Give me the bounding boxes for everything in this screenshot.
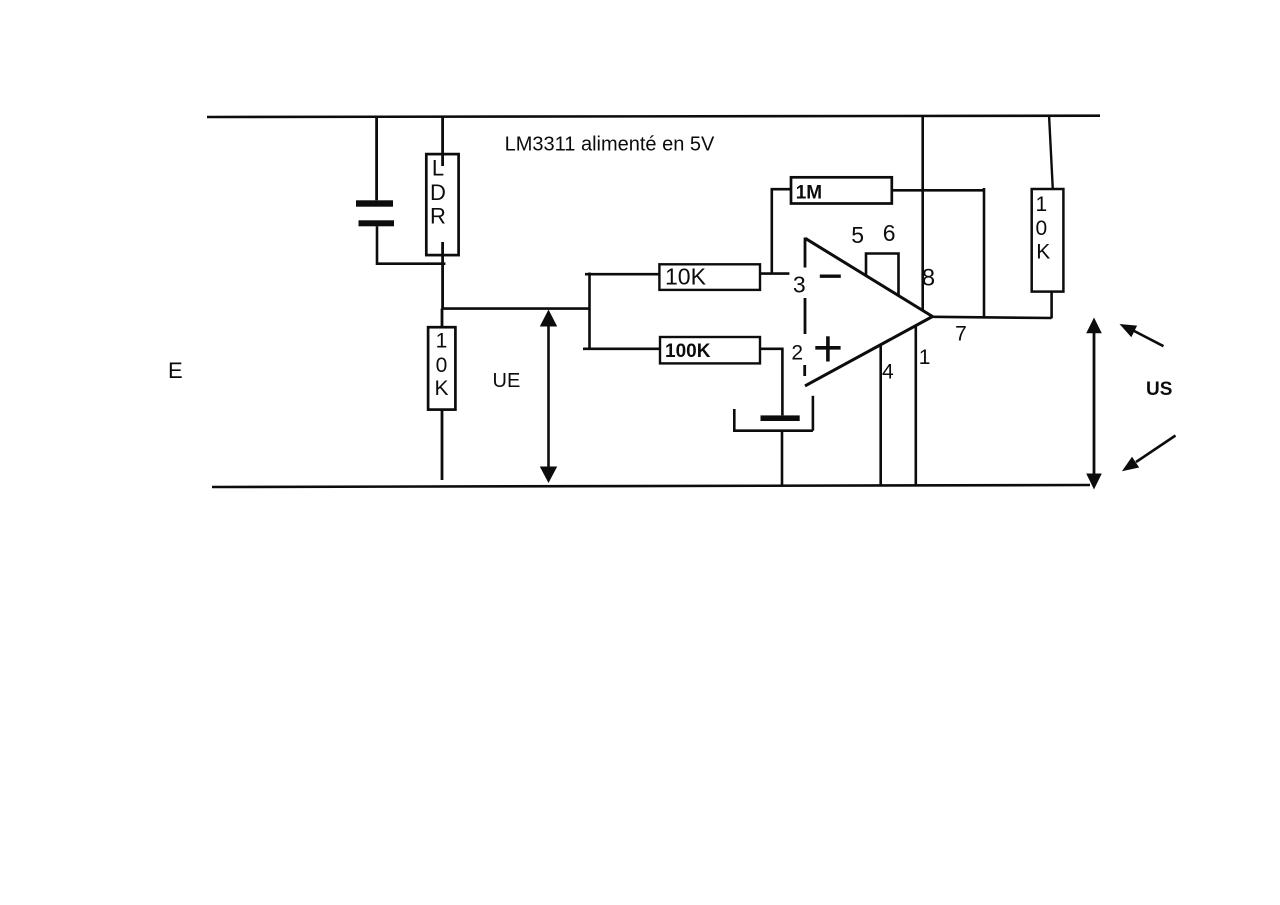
US measurement arrow bbox=[1086, 318, 1102, 490]
svg-text:3: 3 bbox=[793, 271, 806, 297]
wire 1M right branch bbox=[892, 189, 984, 192]
resistor LDR bbox=[426, 154, 458, 255]
wire right 10K top lead from rail bbox=[1049, 117, 1053, 190]
capacitor C1 bbox=[356, 200, 394, 226]
wire 10K divider bottom lead bbox=[441, 410, 444, 480]
wire LDR bottom lead to node bbox=[441, 242, 444, 309]
svg-text:1M: 1M bbox=[796, 182, 822, 203]
svg-text:0: 0 bbox=[1035, 217, 1047, 240]
resistor R 10K divider bbox=[428, 327, 455, 409]
upper pointer arrow bbox=[1120, 324, 1164, 346]
wire capacitor bottom lead bbox=[377, 226, 445, 263]
wire to R1 10K bbox=[585, 273, 661, 276]
svg-text:1: 1 bbox=[1035, 193, 1047, 216]
wire to R2 100K bbox=[583, 347, 661, 350]
wire pin 4 to ground bbox=[879, 345, 882, 486]
resistor R4 10K output pull-up bbox=[1032, 189, 1064, 292]
svg-text:1: 1 bbox=[436, 330, 448, 353]
resistor R2 100K bbox=[660, 337, 760, 363]
svg-text:1: 1 bbox=[919, 346, 931, 369]
wire 10K divider top lead bbox=[441, 309, 444, 328]
svg-text:E: E bbox=[168, 358, 183, 383]
svg-text:7: 7 bbox=[955, 323, 967, 346]
battery B1 reference bbox=[733, 396, 813, 431]
wire bottom ground rail bbox=[212, 485, 1090, 487]
svg-text:5: 5 bbox=[851, 222, 864, 248]
wire feedback vertical to output bbox=[983, 188, 986, 318]
op-amp U1 bbox=[805, 238, 933, 386]
svg-text:4: 4 bbox=[882, 361, 894, 384]
svg-text:UE: UE bbox=[493, 370, 521, 392]
wire LDR top lead bbox=[441, 117, 444, 166]
svg-text:LM3311 alimenté en 5V: LM3311 alimenté en 5V bbox=[505, 134, 715, 156]
wire output pin 7 bbox=[933, 317, 1052, 318]
svg-text:K: K bbox=[434, 377, 448, 400]
wire tee vertical bbox=[588, 273, 591, 351]
svg-text:8: 8 bbox=[922, 265, 935, 292]
wire battery to ground rail bbox=[781, 431, 784, 486]
svg-text:US: US bbox=[1146, 379, 1172, 400]
svg-text:L: L bbox=[432, 155, 444, 180]
UE measurement arrow bbox=[540, 310, 557, 484]
wire R2 to non-inverting input bbox=[760, 347, 784, 350]
wire pin 1 to ground bbox=[914, 326, 917, 486]
wire pin2 branch down to battery bbox=[781, 349, 784, 416]
pin 5/6 strobe box bbox=[866, 254, 899, 297]
wire 1M left branch bbox=[772, 189, 791, 273]
svg-text:6: 6 bbox=[883, 220, 896, 246]
lower pointer arrow bbox=[1122, 436, 1176, 472]
svg-text:R: R bbox=[430, 204, 446, 229]
svg-text:10K: 10K bbox=[665, 264, 707, 290]
resistor R3 1M bbox=[791, 177, 892, 203]
wire top supply rail bbox=[207, 116, 1100, 117]
svg-text:100K: 100K bbox=[665, 341, 711, 362]
wire R1 to inverting input bbox=[760, 272, 789, 275]
node wire to divider tee bbox=[441, 307, 589, 310]
wire pin 8 from top rail bbox=[921, 116, 924, 311]
svg-text:K: K bbox=[1036, 240, 1050, 263]
svg-text:0: 0 bbox=[436, 354, 448, 377]
wire right 10K bottom lead bbox=[1050, 292, 1053, 319]
wire capacitor top lead bbox=[375, 117, 378, 200]
svg-text:2: 2 bbox=[791, 341, 803, 364]
svg-text:D: D bbox=[430, 180, 446, 205]
resistor R1 10K bbox=[659, 264, 760, 290]
